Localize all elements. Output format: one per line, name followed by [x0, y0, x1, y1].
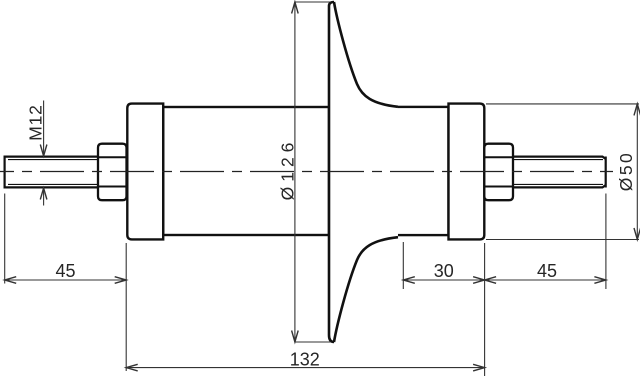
right threaded stud [513, 157, 606, 188]
svg-text:45: 45 [55, 261, 75, 281]
dimension 45 left [5, 194, 127, 372]
dimension Ø50 [486, 104, 639, 240]
centerline [0, 171, 613, 173]
svg-text:M12: M12 [26, 104, 46, 140]
left hex nut [98, 144, 127, 201]
right hex nut [484, 144, 513, 201]
svg-text:Ø126: Ø126 [278, 138, 298, 201]
M12 arrows [40, 145, 47, 200]
bell flange fill [329, 2, 398, 342]
svg-text:Ø50: Ø50 [616, 151, 636, 192]
svg-text:132: 132 [290, 349, 320, 369]
dimension 132 [126, 367, 484, 369]
left threaded stud [5, 156, 99, 189]
middle cylinder (30 section) [330, 107, 449, 235]
svg-text:30: 30 [434, 261, 454, 281]
dimension Ø126 [295, 2, 331, 342]
main cylinder body [163, 107, 329, 235]
dimension 30 [403, 242, 484, 376]
dimension M12 leader [43, 101, 45, 206]
dimension 45 right [485, 194, 606, 290]
bell flange outline [329, 2, 398, 342]
right cap collar [449, 104, 485, 240]
svg-text:45: 45 [537, 261, 557, 281]
left cap collar [127, 104, 163, 240]
